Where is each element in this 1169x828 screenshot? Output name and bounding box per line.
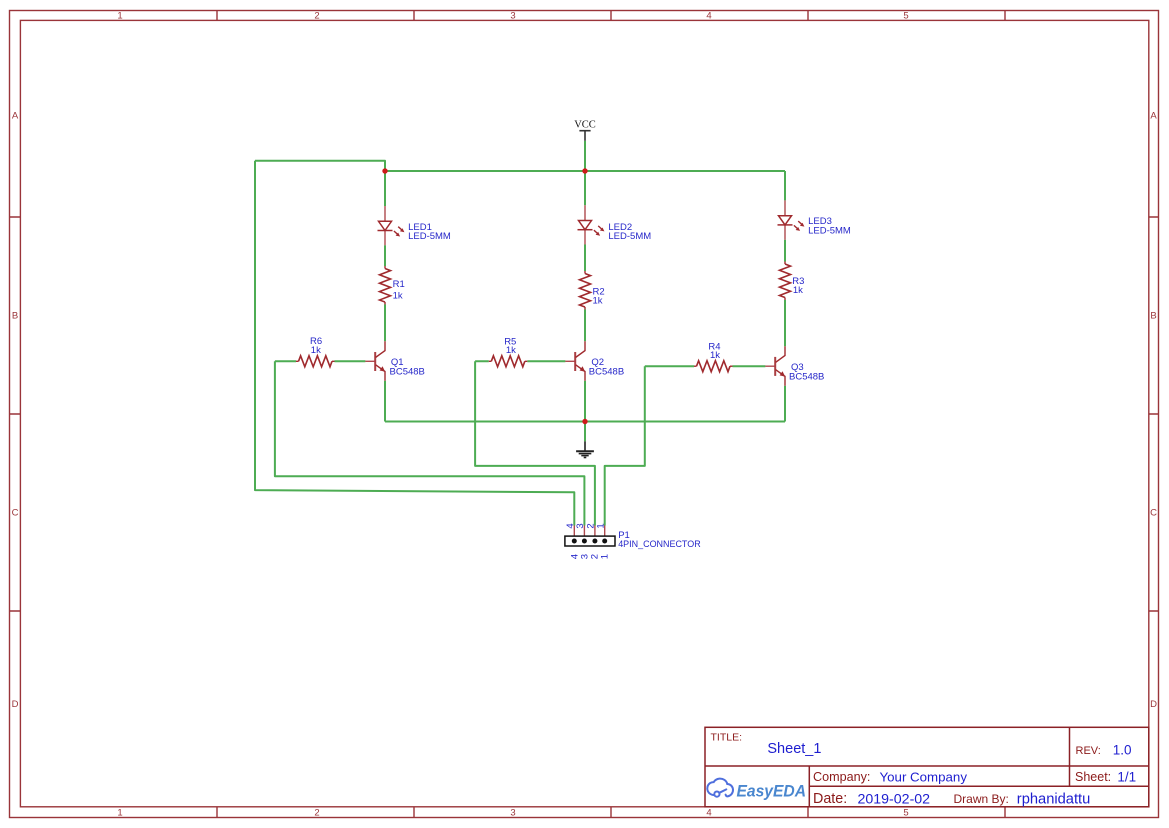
svg-text:BC548B: BC548B	[789, 371, 824, 382]
svg-text:C: C	[12, 508, 19, 519]
svg-text:Date:: Date:	[813, 791, 847, 807]
svg-text:A: A	[1150, 111, 1157, 122]
svg-text:4: 4	[706, 808, 711, 819]
svg-text:VCC: VCC	[574, 120, 596, 131]
svg-text:LED-5MM: LED-5MM	[408, 231, 451, 242]
svg-text:4PIN_CONNECTOR: 4PIN_CONNECTOR	[618, 539, 701, 550]
svg-text:REV:: REV:	[1076, 745, 1101, 757]
svg-text:D: D	[1150, 699, 1157, 710]
svg-text:1: 1	[596, 523, 607, 528]
svg-text:1k: 1k	[793, 285, 803, 296]
svg-text:1k: 1k	[311, 345, 321, 356]
svg-text:5: 5	[903, 808, 908, 819]
svg-text:rphanidattu: rphanidattu	[1017, 792, 1091, 808]
svg-text:1: 1	[600, 554, 611, 559]
svg-text:R1: R1	[393, 279, 405, 290]
svg-text:2: 2	[314, 11, 319, 22]
svg-text:A: A	[12, 111, 19, 122]
svg-text:LED-5MM: LED-5MM	[808, 225, 851, 236]
svg-text:1k: 1k	[710, 350, 720, 361]
svg-text:2: 2	[314, 808, 319, 819]
svg-text:1k: 1k	[506, 345, 516, 356]
svg-text:Sheet:: Sheet:	[1075, 770, 1111, 784]
svg-text:D: D	[12, 699, 19, 710]
svg-text:1: 1	[117, 11, 122, 22]
svg-text:LED-5MM: LED-5MM	[608, 231, 651, 242]
svg-text:3: 3	[510, 808, 515, 819]
svg-text:EasyEDA: EasyEDA	[737, 782, 807, 801]
svg-text:1k: 1k	[393, 291, 403, 302]
svg-text:4: 4	[706, 11, 711, 22]
svg-text:1/1: 1/1	[1117, 770, 1136, 785]
svg-text:1: 1	[117, 808, 122, 819]
svg-text:TITLE:: TITLE:	[711, 732, 743, 744]
svg-text:BC548B: BC548B	[589, 366, 624, 377]
svg-text:3: 3	[510, 11, 515, 22]
svg-text:B: B	[12, 311, 18, 322]
svg-text:Drawn By:: Drawn By:	[954, 792, 1009, 806]
svg-text:Sheet_1: Sheet_1	[767, 741, 821, 757]
svg-text:1.0: 1.0	[1113, 743, 1132, 758]
svg-text:5: 5	[903, 11, 908, 22]
svg-text:1k: 1k	[593, 296, 603, 307]
svg-text:2019-02-02: 2019-02-02	[858, 792, 931, 808]
svg-text:Company:: Company:	[813, 770, 870, 784]
svg-text:BC548B: BC548B	[390, 367, 425, 378]
svg-text:Your Company: Your Company	[880, 770, 968, 785]
svg-text:B: B	[1150, 311, 1156, 322]
svg-text:C: C	[1150, 508, 1157, 519]
